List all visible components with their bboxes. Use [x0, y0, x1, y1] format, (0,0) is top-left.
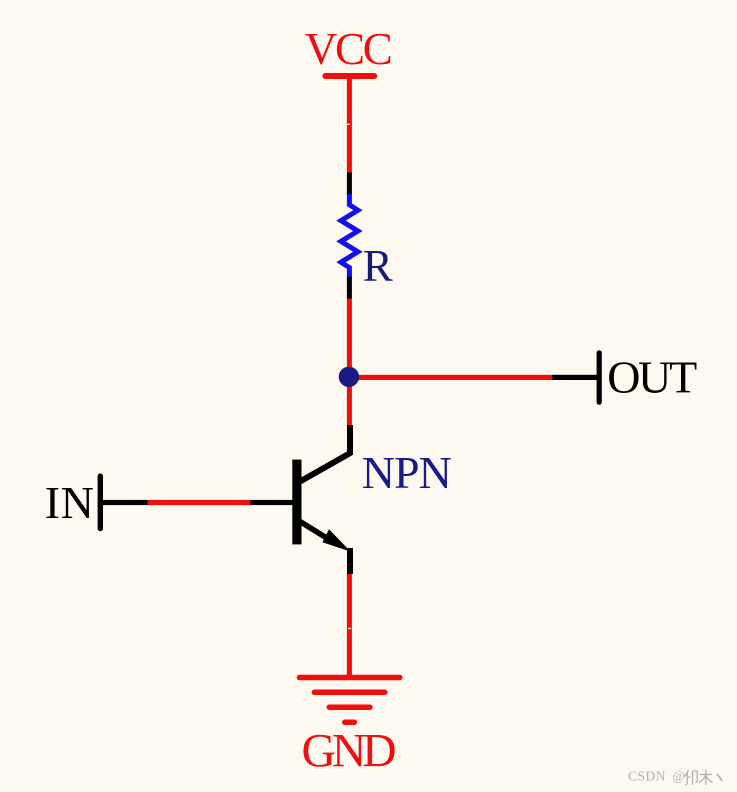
transistor Q1 NPN [250, 425, 354, 574]
junction node [339, 367, 359, 387]
svg-text:NPN: NPN [362, 447, 452, 498]
svg-text:CSDN: CSDN [628, 769, 666, 784]
svg-text:IN: IN [45, 477, 94, 528]
glyph 木 [699, 770, 713, 786]
wire emitter to GND [347, 574, 352, 675]
resistor R [341, 173, 358, 300]
svg-text:@: @ [673, 769, 685, 784]
glyph 卯 [684, 770, 697, 785]
port IN [100, 476, 148, 528]
wire node to collector [347, 377, 352, 426]
power symbol VCC [325, 73, 374, 79]
watermark [628, 769, 722, 786]
wire IN to base [148, 500, 251, 505]
wire node to OUT [349, 375, 552, 380]
svg-text:OUT: OUT [607, 352, 697, 403]
wire VCC to resistor [347, 78, 352, 174]
svg-text:GND: GND [302, 726, 397, 778]
wire resistor to node [347, 299, 352, 378]
svg-text:R: R [363, 241, 393, 291]
ground GND [299, 678, 399, 723]
port OUT [552, 353, 600, 402]
svg-text:VCC: VCC [305, 24, 393, 74]
glyph 丶 [717, 774, 723, 781]
